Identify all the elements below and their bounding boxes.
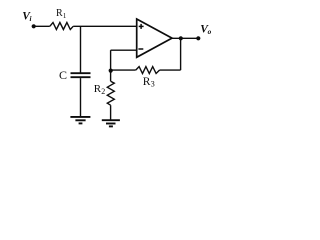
svg-text:3: 3: [151, 80, 155, 89]
wire junction down to capacitor: [80, 26, 82, 73]
wire R2 to ground: [110, 105, 112, 120]
wire feedback riser: [180, 38, 182, 70]
label R2: [94, 83, 105, 96]
wire R1 to op-amp + input: [73, 25, 137, 27]
op-amp - pin mark: [138, 48, 143, 50]
wire op-amp - input: [111, 49, 137, 51]
capacitor C: [71, 73, 91, 77]
wire op-amp output: [172, 37, 199, 39]
label R3: [143, 76, 155, 89]
wire capacitor to ground: [80, 78, 82, 117]
wire R3 to feedback corner: [160, 69, 181, 71]
node Vo label: [200, 23, 211, 36]
svg-text:R: R: [143, 76, 151, 88]
resistor R2: [107, 81, 114, 105]
resistor R3: [136, 67, 160, 74]
label R1: [56, 8, 67, 20]
svg-text:2: 2: [101, 87, 105, 96]
op-amp U1: [137, 19, 172, 57]
ground below C: [70, 117, 90, 124]
wire input to R1: [34, 25, 50, 27]
node feedback dot: [179, 36, 183, 40]
svg-text:o: o: [208, 28, 212, 36]
svg-text:C: C: [59, 68, 67, 82]
resistor R1: [50, 23, 73, 30]
wire node to R3: [111, 69, 136, 71]
node output dot: [196, 36, 200, 40]
wire - input down to node: [110, 50, 112, 81]
node input dot: [32, 24, 36, 28]
svg-text:i: i: [30, 15, 32, 23]
op-amp + pin mark: [139, 24, 144, 29]
ground below R2: [102, 120, 120, 126]
node Vi label: [22, 10, 31, 23]
node junction dot: [109, 69, 113, 73]
svg-text:1: 1: [63, 12, 67, 20]
